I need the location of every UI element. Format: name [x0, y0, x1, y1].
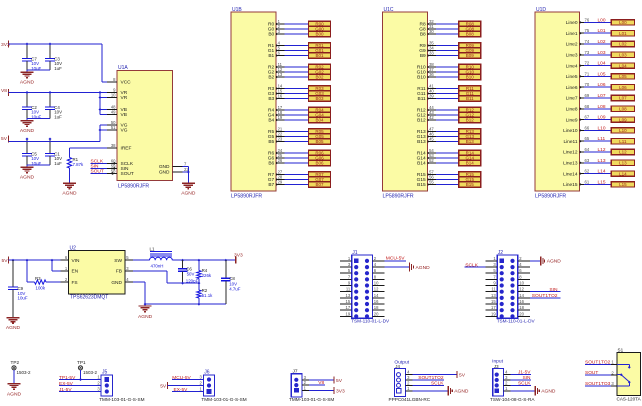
- svg-text:B06: B06: [315, 161, 324, 166]
- svg-text:TP2: TP2: [11, 360, 20, 365]
- svg-text:75: 75: [585, 28, 590, 33]
- svg-text:TSM-110-01-L-DV: TSM-110-01-L-DV: [351, 318, 390, 323]
- svg-text:16: 16: [519, 299, 524, 304]
- svg-text:B4: B4: [268, 118, 274, 124]
- svg-text:L04: L04: [619, 63, 627, 68]
- svg-text:5V: 5V: [459, 373, 466, 379]
- svg-text:V8: V8: [318, 380, 324, 386]
- svg-text:TP1: TP1: [77, 360, 86, 365]
- svg-text:CAS-120TA: CAS-120TA: [617, 397, 642, 402]
- svg-text:13: 13: [491, 293, 496, 298]
- svg-text:AGND: AGND: [20, 80, 35, 86]
- svg-text:61: 61: [585, 179, 590, 184]
- svg-text:B2: B2: [268, 75, 274, 81]
- svg-text:B14: B14: [466, 161, 475, 166]
- svg-text:30: 30: [429, 29, 434, 34]
- svg-text:226k: 226k: [202, 273, 212, 278]
- svg-text:L12: L12: [619, 150, 627, 155]
- svg-text:17: 17: [491, 305, 496, 310]
- svg-text:S1: S1: [618, 347, 624, 352]
- svg-text:69: 69: [585, 93, 590, 98]
- svg-text:SIN: SIN: [549, 287, 558, 293]
- svg-text:VCC: VCC: [121, 80, 132, 86]
- svg-text:63: 63: [585, 158, 590, 163]
- svg-text:VG: VG: [121, 128, 128, 134]
- svg-text:20: 20: [374, 311, 379, 316]
- svg-text:5V: 5V: [2, 258, 9, 264]
- svg-text:VB: VB: [121, 112, 127, 118]
- svg-text:L13: L13: [619, 161, 627, 166]
- svg-text:19: 19: [278, 115, 283, 120]
- svg-text:L07: L07: [619, 96, 627, 101]
- svg-text:J2: J2: [498, 250, 504, 256]
- svg-text:LP5890RJFR: LP5890RJFR: [118, 184, 149, 190]
- svg-text:LP5890RJFR: LP5890RJFR: [231, 193, 262, 199]
- svg-text:100k: 100k: [36, 285, 46, 290]
- svg-text:52: 52: [429, 158, 434, 163]
- svg-text:MCU-5V: MCU-5V: [172, 375, 191, 381]
- svg-text:U1B: U1B: [232, 7, 242, 13]
- svg-text:23: 23: [278, 137, 283, 142]
- svg-text:J5: J5: [102, 370, 108, 376]
- svg-text:J1-5V: J1-5V: [518, 370, 531, 376]
- svg-text:TMM-103-01-G-S-SM: TMM-103-01-G-S-SM: [99, 397, 144, 401]
- svg-text:GND: GND: [111, 280, 122, 286]
- svg-text:51: 51: [111, 125, 116, 130]
- svg-text:B08: B08: [466, 32, 475, 37]
- svg-text:U1A: U1A: [118, 65, 128, 71]
- svg-text:AGND: AGND: [181, 191, 196, 197]
- svg-text:VR: VR: [121, 95, 128, 101]
- svg-text:AGND: AGND: [416, 265, 431, 271]
- svg-text:71: 71: [585, 71, 590, 76]
- svg-text:29: 29: [278, 180, 283, 185]
- svg-text:B03: B03: [315, 96, 324, 101]
- svg-text:B01: B01: [315, 53, 324, 58]
- svg-text:AGND: AGND: [7, 391, 22, 397]
- svg-text:36: 36: [429, 72, 434, 77]
- svg-text:51.1k: 51.1k: [202, 293, 214, 298]
- svg-text:19: 19: [346, 311, 351, 316]
- svg-text:J6: J6: [204, 370, 210, 376]
- svg-text:U1D: U1D: [536, 7, 546, 13]
- svg-text:L03: L03: [619, 53, 627, 58]
- svg-text:15: 15: [346, 299, 351, 304]
- svg-text:7.87k: 7.87k: [73, 162, 85, 167]
- svg-text:AGND: AGND: [20, 128, 35, 134]
- svg-text:67: 67: [585, 115, 590, 120]
- svg-text:SIN: SIN: [121, 166, 130, 172]
- svg-text:B09: B09: [466, 53, 475, 58]
- svg-text:U2: U2: [70, 245, 77, 251]
- svg-text:AGND: AGND: [541, 389, 556, 395]
- svg-text:3V3: 3V3: [336, 388, 345, 394]
- svg-text:B13: B13: [466, 139, 475, 144]
- svg-text:62: 62: [585, 169, 590, 174]
- svg-text:Line8: Line8: [566, 107, 578, 113]
- svg-text:B14: B14: [417, 161, 426, 167]
- svg-text:TSM-110-01-L-DV: TSM-110-01-L-DV: [497, 318, 536, 323]
- svg-text:FS: FS: [72, 280, 78, 286]
- svg-text:10uF: 10uF: [18, 295, 28, 300]
- svg-text:AGND: AGND: [547, 259, 562, 265]
- svg-text:B05: B05: [315, 139, 324, 144]
- svg-text:SCLK: SCLK: [431, 380, 444, 386]
- svg-text:14: 14: [519, 293, 524, 298]
- svg-text:B0: B0: [268, 32, 274, 38]
- svg-text:17: 17: [346, 305, 351, 310]
- svg-text:B10: B10: [466, 75, 475, 80]
- svg-text:L11: L11: [619, 139, 627, 144]
- svg-text:B10: B10: [417, 75, 426, 81]
- svg-text:SOUT: SOUT: [121, 171, 134, 177]
- svg-text:IREF: IREF: [121, 146, 132, 152]
- svg-text:B15: B15: [466, 182, 475, 187]
- svg-text:SOUT1TO2: SOUT1TO2: [418, 375, 444, 381]
- svg-text:Line1: Line1: [566, 31, 578, 37]
- svg-text:B11: B11: [418, 96, 427, 102]
- svg-text:16: 16: [374, 299, 379, 304]
- svg-text:B8: B8: [420, 32, 426, 38]
- svg-text:V8: V8: [1, 88, 7, 94]
- svg-text:SCLK: SCLK: [518, 380, 531, 386]
- svg-text:B02: B02: [315, 75, 324, 80]
- svg-text:TSW-104-08-G-S-RA: TSW-104-08-G-S-RA: [490, 397, 535, 401]
- svg-text:4.7uF: 4.7uF: [229, 286, 241, 291]
- svg-text:AGND: AGND: [62, 191, 77, 197]
- svg-text:76: 76: [585, 17, 590, 22]
- svg-text:65: 65: [585, 136, 590, 141]
- svg-text:L08: L08: [619, 107, 627, 112]
- svg-text:68: 68: [585, 104, 590, 109]
- svg-text:B6: B6: [268, 161, 274, 167]
- svg-text:J1: J1: [352, 250, 358, 256]
- svg-text:Line7: Line7: [566, 96, 578, 102]
- svg-text:38: 38: [111, 143, 116, 148]
- svg-text:50V: 50V: [187, 271, 195, 276]
- svg-text:11: 11: [491, 287, 496, 292]
- svg-text:B1: B1: [268, 53, 274, 59]
- svg-text:1uF: 1uF: [54, 161, 62, 166]
- svg-text:Line4: Line4: [566, 63, 578, 69]
- svg-text:5V: 5V: [336, 378, 343, 384]
- svg-text:Line5: Line5: [566, 74, 578, 80]
- svg-text:13: 13: [278, 72, 283, 77]
- svg-text:B07: B07: [315, 182, 324, 187]
- svg-text:L06: L06: [619, 85, 627, 90]
- svg-text:TPS62623DMQT: TPS62623DMQT: [70, 295, 108, 301]
- svg-text:SIN: SIN: [523, 375, 532, 381]
- svg-text:11: 11: [346, 287, 351, 292]
- svg-text:73: 73: [585, 50, 590, 55]
- svg-text:Line11: Line11: [563, 139, 577, 145]
- svg-text:SOUT1TO2: SOUT1TO2: [532, 293, 558, 299]
- svg-text:TMM-103-01-G-S-SM: TMM-103-01-G-S-SM: [201, 397, 246, 401]
- svg-text:L09: L09: [619, 117, 627, 122]
- svg-text:MCU-5V: MCU-5V: [386, 256, 405, 262]
- svg-text:Line2: Line2: [566, 42, 578, 48]
- svg-text:Line14: Line14: [563, 171, 578, 177]
- svg-text:SCLK: SCLK: [121, 161, 134, 167]
- svg-text:B11: B11: [466, 96, 474, 101]
- svg-text:Line12: Line12: [563, 150, 578, 156]
- svg-text:B12: B12: [417, 118, 426, 124]
- svg-text:Line6: Line6: [566, 85, 578, 91]
- svg-text:FB: FB: [116, 269, 122, 275]
- svg-text:L14: L14: [619, 171, 627, 176]
- svg-text:14: 14: [374, 293, 379, 298]
- svg-text:55: 55: [429, 180, 434, 185]
- svg-text:SW: SW: [114, 258, 122, 264]
- svg-text:PPPC041LGBN-RC: PPPC041LGBN-RC: [389, 397, 431, 401]
- svg-text:16: 16: [278, 94, 283, 99]
- svg-text:L10: L10: [619, 128, 627, 133]
- svg-text:B00: B00: [315, 32, 324, 37]
- svg-text:Line0: Line0: [566, 20, 578, 26]
- svg-text:Line10: Line10: [563, 128, 578, 134]
- svg-text:AGND: AGND: [20, 175, 35, 181]
- svg-text:B12: B12: [466, 118, 475, 123]
- svg-text:Line13: Line13: [563, 161, 578, 167]
- svg-text:L02: L02: [619, 42, 627, 47]
- svg-text:10: 10: [111, 93, 116, 98]
- svg-text:U1C: U1C: [384, 7, 394, 13]
- svg-text:1503-2: 1503-2: [83, 370, 98, 375]
- svg-text:70: 70: [585, 82, 590, 87]
- svg-text:B13: B13: [417, 139, 426, 145]
- svg-text:42: 42: [429, 115, 434, 120]
- svg-text:12: 12: [374, 287, 379, 292]
- svg-text:TP1-5V: TP1-5V: [59, 375, 76, 381]
- svg-text:J7: J7: [293, 369, 298, 375]
- svg-text:45: 45: [429, 137, 434, 142]
- svg-text:470nH: 470nH: [151, 263, 164, 268]
- svg-text:66: 66: [585, 125, 590, 130]
- svg-text:10: 10: [519, 281, 524, 286]
- svg-text:LP5890RJFR: LP5890RJFR: [535, 193, 566, 199]
- svg-text:64: 64: [585, 147, 590, 152]
- svg-text:TMM-103-01-G-S-SM: TMM-103-01-G-S-SM: [289, 397, 334, 401]
- svg-text:15: 15: [491, 299, 496, 304]
- svg-text:LP5890RJFR: LP5890RJFR: [383, 193, 414, 199]
- svg-text:J1-5V: J1-5V: [59, 387, 72, 393]
- svg-text:L01: L01: [619, 31, 627, 36]
- svg-text:R3: R3: [35, 276, 41, 281]
- svg-text:VIN: VIN: [72, 258, 81, 264]
- svg-text:B7: B7: [268, 182, 274, 188]
- svg-text:5V: 5V: [1, 136, 8, 142]
- svg-text:19: 19: [491, 311, 496, 316]
- svg-text:10: 10: [374, 281, 379, 286]
- svg-text:58: 58: [111, 169, 116, 174]
- svg-text:L15: L15: [619, 182, 627, 187]
- svg-text:18: 18: [519, 305, 524, 310]
- svg-text:EX-5V: EX-5V: [174, 387, 189, 393]
- svg-text:L00: L00: [619, 20, 627, 25]
- svg-text:L1: L1: [150, 247, 155, 252]
- svg-text:12: 12: [519, 287, 524, 292]
- svg-text:B15: B15: [417, 182, 426, 188]
- svg-text:74: 74: [585, 39, 590, 44]
- svg-text:26: 26: [278, 158, 283, 163]
- svg-text:39: 39: [429, 94, 434, 99]
- svg-text:GND: GND: [159, 164, 170, 170]
- svg-text:Line3: Line3: [566, 53, 578, 59]
- svg-text:Line9: Line9: [566, 117, 578, 123]
- svg-text:B9: B9: [420, 53, 426, 59]
- svg-text:AGND: AGND: [454, 389, 469, 395]
- svg-text:SCLK: SCLK: [465, 262, 479, 268]
- svg-text:13: 13: [346, 293, 351, 298]
- svg-text:B04: B04: [315, 118, 324, 123]
- svg-text:EX-5V: EX-5V: [59, 381, 74, 387]
- svg-text:Line15: Line15: [563, 182, 578, 188]
- svg-text:L05: L05: [619, 74, 627, 79]
- svg-text:J4: J4: [395, 364, 400, 369]
- svg-text:1uF: 1uF: [54, 114, 62, 119]
- svg-text:EN: EN: [72, 269, 79, 275]
- svg-text:1503-2: 1503-2: [17, 370, 32, 375]
- svg-text:5V: 5V: [160, 383, 167, 389]
- svg-text:B3: B3: [268, 96, 274, 102]
- svg-text:20: 20: [519, 311, 524, 316]
- svg-text:GND: GND: [159, 170, 170, 176]
- svg-text:49: 49: [111, 110, 116, 115]
- svg-text:1uF: 1uF: [54, 66, 62, 71]
- svg-text:AGND: AGND: [6, 325, 21, 331]
- svg-text:AGND: AGND: [138, 314, 153, 320]
- svg-text:72: 72: [585, 61, 590, 66]
- svg-text:33: 33: [429, 51, 434, 56]
- svg-text:18: 18: [374, 305, 379, 310]
- svg-text:J3: J3: [494, 364, 499, 369]
- svg-text:B5: B5: [268, 139, 274, 145]
